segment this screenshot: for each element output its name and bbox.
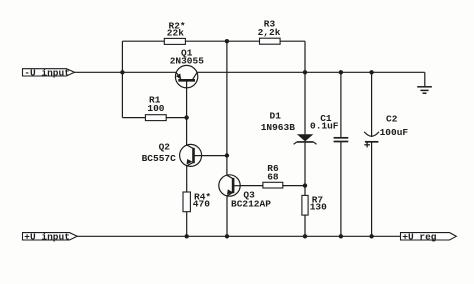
svg-text:+U input: +U input: [24, 232, 70, 243]
wire top rail middle segment: [185, 40, 259, 42]
wire Q2 base lead: [202, 155, 227, 157]
wire R6 to node: [283, 185, 305, 187]
svg-text:130: 130: [310, 202, 327, 213]
junction at -U input and left vertical: [120, 70, 124, 74]
terminal flag +U input: [23, 232, 78, 243]
transistor Q3 BC212AP: [219, 175, 271, 210]
Q2 base lead from bar: [194, 155, 202, 157]
svg-text:D1: D1: [270, 111, 282, 122]
junction R4 bottom rail: [185, 234, 189, 238]
terminal flag -U input: [23, 68, 75, 79]
wire C1 bottom: [340, 142, 342, 237]
junction C1 bottom rail: [339, 234, 343, 238]
junction mid rail C2: [369, 70, 373, 74]
wire bottom rail: [77, 235, 401, 237]
wire Q3 base lead: [240, 185, 263, 187]
svg-text:100uF: 100uF: [380, 127, 409, 138]
capacitor C2 100uF polarized: [364, 113, 408, 147]
junction mid rail C1: [339, 70, 343, 74]
wire top rail drop to mid rail: [304, 41, 306, 72]
wire Q1 base to Q2 collector: [186, 81, 188, 145]
zener diode D1 1N963B: [261, 111, 317, 145]
svg-text:+U reg: +U reg: [402, 232, 437, 243]
svg-text:1N963B: 1N963B: [261, 122, 296, 133]
svg-text:C2: C2: [386, 113, 398, 124]
wire C2 bottom: [371, 142, 373, 237]
junction R1 to Q1 base: [184, 115, 188, 119]
wire C1 top: [340, 72, 342, 137]
svg-text:0.1uF: 0.1uF: [310, 120, 339, 131]
junction top rail x227: [225, 39, 229, 43]
transistor Q2 BC557C: [142, 142, 202, 167]
svg-text:BC557C: BC557C: [142, 153, 177, 164]
resistor R2: [164, 20, 185, 44]
wire Q2 emitter to R4: [186, 166, 188, 192]
resistor R6: [263, 163, 283, 188]
wire top rail right segment: [280, 40, 305, 42]
junction C2 bottom rail: [369, 234, 373, 238]
wire R4 to bottom rail: [186, 212, 188, 237]
wire left vertical: [121, 41, 123, 117]
ground: [417, 87, 432, 93]
svg-text:2,2k: 2,2k: [258, 27, 281, 38]
svg-text:68: 68: [267, 171, 279, 182]
svg-text:22k: 22k: [167, 27, 184, 38]
svg-text:2N3055: 2N3055: [170, 55, 205, 66]
wire C2 top: [371, 72, 373, 137]
svg-text:Q2: Q2: [159, 142, 171, 153]
wire Q3 emitter to bottom rail: [226, 196, 228, 236]
wire R1 row right: [166, 117, 186, 119]
resistor R4: [183, 192, 211, 212]
junction Q2 base x227: [225, 153, 229, 157]
junction Q3 emitter bottom rail: [225, 234, 229, 238]
capacitor C1 0.1uF: [310, 113, 348, 142]
junction mid rail D1: [303, 70, 307, 74]
svg-text:BC212AP: BC212AP: [231, 199, 271, 210]
svg-text:470: 470: [193, 199, 210, 210]
junction R7 bottom rail: [303, 234, 307, 238]
wire D1 anode: [304, 72, 306, 134]
resistor R7: [302, 195, 327, 215]
wire R7 to bottom rail: [304, 215, 306, 236]
wire D1 cathode to node: [304, 142, 306, 196]
resistor R3: [258, 18, 281, 44]
wire top rail left segment: [122, 40, 164, 42]
junction D1 R6 R7 node: [303, 183, 307, 187]
wire R1 row left: [122, 117, 145, 119]
wire vertical x227 from top rail to Q3: [226, 41, 228, 175]
resistor R1: [145, 94, 166, 120]
wire ground drop: [424, 72, 426, 86]
wire mid rail left segment: [75, 71, 177, 73]
wire mid rail right segment: [197, 71, 425, 73]
svg-text:100: 100: [147, 103, 164, 114]
transistor Q1 2N3055: [170, 47, 205, 88]
svg-text:-U input: -U input: [24, 68, 70, 79]
terminal flag +U reg: [401, 232, 457, 243]
